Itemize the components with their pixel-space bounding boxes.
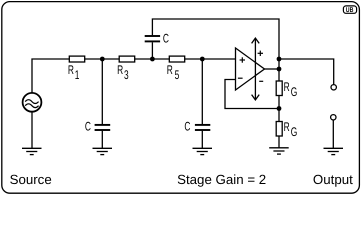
capacitor C3 (second shunt) [195,125,210,130]
op-amp output arrows [252,38,260,100]
label R5 [167,63,180,82]
output polarity + [258,51,263,56]
svg-text:R: R [284,120,290,134]
wire node C down to C3 [201,59,203,124]
wire op-amp output to node [265,68,280,70]
svg-text:C: C [85,120,91,134]
wire node A down to C2 [101,59,103,124]
capacitor C2 (first shunt) [95,125,111,130]
op-amp inner - [238,77,243,79]
svg-text:3: 3 [124,68,129,82]
node B [150,57,155,62]
resistor R3 [119,56,135,62]
wire node to output terminal [279,59,334,85]
svg-text:Source: Source [10,172,52,187]
svg-text:G: G [291,85,298,99]
svg-text:5: 5 [175,68,180,82]
wire C3 to ground [201,131,203,149]
svg-text:C: C [163,31,169,45]
wire RG1 to node [278,96,280,122]
svg-text:G: G [291,125,298,139]
op-amp inner + [240,57,245,62]
node feedback/RG junction [277,106,282,111]
label RG1 [284,80,298,99]
UB badge [343,6,356,14]
op-amp U1 triangle [236,48,265,90]
wire lower terminal to ground [332,120,334,148]
node output upper [277,57,282,62]
svg-text:1: 1 [75,68,80,82]
wire node B up to C1 [151,42,153,59]
svg-text:Stage Gain = 2: Stage Gain = 2 [177,172,266,187]
resistor RG2 [276,122,282,137]
label R1 [68,63,80,82]
output terminal upper [331,85,336,90]
wire R5 to op-amp [185,58,236,60]
svg-text:UB: UB [346,7,354,14]
ground (output) [324,148,344,154]
wire source to ground [31,112,33,148]
svg-text:Output: Output [313,172,353,187]
svg-text:R: R [284,80,290,94]
resistor R1 [69,56,84,62]
node output lower [277,67,282,72]
wire R3 to R5 [135,58,170,60]
ground (C2) [93,148,113,154]
output terminal lower [331,115,336,120]
resistor RG1 [276,81,282,96]
resistor R5 [169,56,184,62]
source V1 [23,93,42,112]
wire R1 to R3 [85,58,120,60]
ground (C3) [193,148,213,154]
svg-text:R: R [68,63,74,77]
node A [100,57,105,62]
svg-text:R: R [167,63,173,77]
capacitor C1 (feedback, top) [145,36,160,41]
ground (source) [22,148,42,154]
output polarity - [259,80,263,82]
label R3 [117,63,129,82]
wire output node down to RG1 [278,59,280,81]
node C [200,57,205,62]
ground (RG2) [269,148,289,154]
border frame [2,2,360,194]
wire RG2 to ground [278,136,280,148]
wire C2 to ground [101,131,103,149]
wire C1 top loop to output node [152,19,279,59]
label RG2 [284,120,298,139]
wire source to R1 [32,59,69,93]
feedback wire (inverting input loop) [225,80,279,109]
svg-text:C: C [184,120,190,134]
svg-text:R: R [117,63,123,77]
